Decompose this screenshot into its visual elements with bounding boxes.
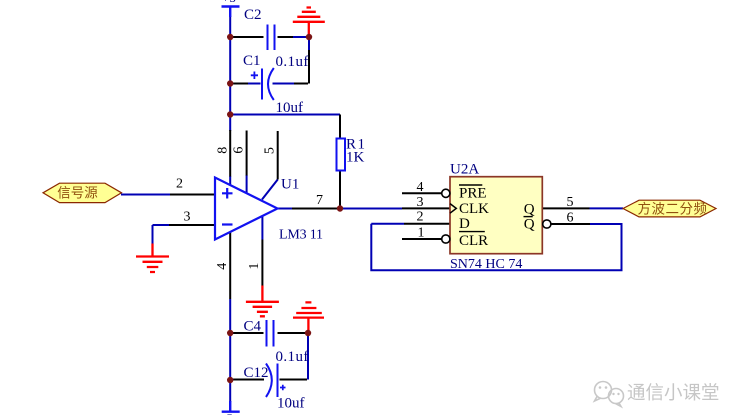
svg-text:PRE: PRE (459, 186, 487, 202)
svg-text:Q: Q (524, 202, 535, 218)
svg-text:C2: C2 (244, 7, 262, 23)
svg-text:4: 4 (417, 180, 424, 195)
svg-text:0.1uf: 0.1uf (276, 349, 309, 365)
svg-text:0.1uf: 0.1uf (276, 54, 309, 70)
svg-text:7: 7 (316, 193, 323, 208)
svg-text:D: D (459, 216, 470, 232)
svg-text:信号源: 信号源 (57, 186, 98, 201)
svg-text:方波二分频: 方波二分频 (638, 201, 708, 216)
svg-text:3: 3 (417, 195, 424, 210)
svg-text:3: 3 (184, 210, 191, 225)
svg-text:1: 1 (247, 263, 262, 270)
svg-text:+5: +5 (222, 0, 236, 5)
svg-text:Q: Q (524, 217, 535, 233)
svg-text:4: 4 (215, 263, 230, 270)
svg-text:10uf: 10uf (276, 100, 304, 116)
svg-text:1: 1 (418, 226, 425, 241)
svg-text:-5: -5 (222, 411, 233, 415)
svg-text:LM3 11: LM3 11 (279, 228, 323, 243)
svg-text:C4: C4 (244, 319, 262, 335)
svg-text:U1: U1 (281, 177, 299, 193)
svg-text:5: 5 (567, 195, 574, 210)
svg-text:SN74 HC 74: SN74 HC 74 (450, 257, 522, 272)
svg-text:U2A: U2A (450, 161, 479, 177)
svg-text:C1: C1 (243, 53, 261, 69)
svg-text:8: 8 (216, 147, 231, 154)
svg-text:1K: 1K (346, 150, 365, 166)
svg-text:10uf: 10uf (277, 396, 305, 412)
svg-text:通信小课堂: 通信小课堂 (627, 383, 720, 404)
svg-text:CLR: CLR (459, 233, 488, 249)
svg-text:6: 6 (567, 211, 574, 226)
svg-text:2: 2 (417, 210, 424, 225)
svg-text:2: 2 (176, 177, 183, 192)
svg-text:CLK: CLK (459, 201, 489, 217)
svg-text:6: 6 (232, 147, 247, 154)
svg-text:C12: C12 (244, 365, 269, 381)
svg-text:5: 5 (263, 147, 278, 154)
